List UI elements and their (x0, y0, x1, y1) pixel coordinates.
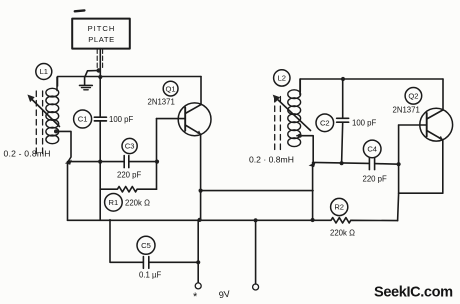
wire: L1 tap (55, 131, 71, 161)
wire: emitter link to right section (201, 190, 313, 192)
svg-text:100 pF: 100 pF (109, 115, 134, 124)
svg-text:C5: C5 (141, 241, 151, 250)
svg-text:Q2: Q2 (408, 92, 418, 101)
svg-text:2N1371: 2N1371 (393, 106, 420, 115)
svg-text:*: * (193, 291, 198, 303)
wire: Q2 base horizontal (399, 124, 427, 126)
svg-text:C1: C1 (78, 115, 88, 124)
wire: shield tap to ground (85, 71, 98, 86)
capacitor C2 plates (337, 117, 349, 119)
capacitor C4 plates (368, 158, 370, 170)
wire: L2 tap (297, 136, 313, 163)
svg-text:220k Ω: 220k Ω (330, 228, 355, 237)
wire: Q2 emitter to base vertical (399, 140, 443, 193)
wire: Q1 base horizontal (157, 118, 186, 120)
wire: emitter down to terminal 1 (197, 220, 199, 283)
transistor Q2 (420, 108, 453, 141)
node: tap dot on coil (54, 129, 58, 133)
wire: left top rail (58, 77, 202, 87)
label C5 (137, 236, 155, 254)
svg-text:2N1371: 2N1371 (148, 98, 175, 107)
shield dashed lines (96, 49, 98, 70)
wire: C1 branch vertical (99, 77, 101, 117)
wire: pitch plate center conductor down to rail (99, 49, 101, 78)
node: C2 bottom junction (340, 161, 344, 165)
capacitor C5 plates (142, 257, 144, 269)
svg-text:R1: R1 (109, 198, 119, 207)
capacitor C1 plates (94, 116, 106, 118)
node: emitter meets rail (198, 218, 202, 222)
label Q1 (163, 81, 178, 96)
wire: tap drop to rail (312, 162, 314, 220)
transistor Q1 (178, 103, 211, 136)
node: tap junction (65, 160, 72, 165)
svg-text:PLATE: PLATE (88, 35, 115, 44)
wire: Q1 base vertical (156, 119, 158, 190)
wire: Q1 emitter vertical (200, 134, 202, 219)
L1 variable arrow (30, 98, 60, 127)
wire: Q2 collector (442, 79, 444, 110)
label R1 (105, 194, 123, 212)
wire: C3 row (68, 161, 124, 163)
node: plate wire joins rail (98, 75, 102, 79)
svg-text:220 pF: 220 pF (117, 171, 142, 180)
wire: rail down to terminal 2 (255, 220, 257, 284)
node: C4 right junction (397, 162, 401, 166)
inductor L1 coil (56, 77, 58, 90)
terminal 1 (195, 283, 201, 289)
svg-text:PITCH: PITCH (88, 24, 116, 33)
svg-text:0.1 µF: 0.1 µF (139, 271, 161, 280)
wire: C4 row (313, 162, 369, 163)
svg-text:C3: C3 (125, 142, 135, 151)
svg-text:Q1: Q1 (166, 84, 176, 93)
inductor L2 coil (299, 79, 301, 92)
node: terminal 2 wire junction (254, 218, 258, 222)
node: L2 tap drop junction (311, 218, 315, 222)
wire: C5 row (110, 220, 143, 263)
svg-text:C2: C2 (320, 119, 330, 128)
label C4 (363, 140, 381, 158)
node: C5 row junction (196, 260, 200, 264)
node: C3 row left junction (98, 160, 102, 164)
L1 core dashed lines (35, 91, 37, 154)
capacitor C3 plates (123, 156, 125, 168)
svg-text:220 pF: 220 pF (363, 175, 388, 184)
pitch plate box (72, 19, 130, 49)
svg-text:220k Ω: 220k Ω (125, 198, 150, 207)
label R2 (331, 198, 348, 215)
svg-text:9V: 9V (218, 289, 231, 301)
node: C2 top junction (341, 77, 345, 81)
svg-text:R2: R2 (334, 203, 344, 212)
wire: tap down to bottom rail (67, 162, 69, 221)
terminal 2 (253, 284, 259, 290)
svg-text:L1: L1 (40, 67, 48, 76)
label C2 (316, 114, 334, 132)
wire: C2 branch vertical (342, 79, 344, 118)
resistor R1 (100, 187, 156, 192)
svg-text:100 pF: 100 pF (352, 118, 377, 127)
svg-text:L2: L2 (278, 74, 286, 83)
label L2 (274, 70, 290, 86)
label L1 (36, 64, 52, 80)
svg-text:C4: C4 (367, 145, 377, 154)
L2 core dashed lines (274, 97, 276, 153)
svg-text:SeekIC.com: SeekIC.com (374, 285, 453, 301)
node: emitter link junction (199, 189, 203, 193)
wire: Q2 base vertical (398, 125, 399, 221)
wire: bottom common rail with resistor R2 (68, 218, 398, 223)
node: C3 row right junction (155, 160, 159, 164)
label C1 (74, 110, 92, 128)
node: shield tap junction (96, 68, 100, 72)
wire: right top rail (300, 79, 443, 95)
ground (80, 84, 93, 86)
svg-text:0.2 - 0.8mH: 0.2 - 0.8mH (4, 149, 51, 159)
svg-text:0.2 · 0.8mH: 0.2 · 0.8mH (249, 155, 294, 165)
label C3 (122, 138, 137, 153)
L2 variable arrow (276, 98, 311, 131)
label Q2 (405, 88, 422, 105)
node: tap dot on coil (298, 134, 302, 138)
dash mark above pitch plate (75, 9, 85, 12)
wire: Q1 collector (200, 77, 202, 105)
node: tap corner junction (309, 162, 316, 167)
